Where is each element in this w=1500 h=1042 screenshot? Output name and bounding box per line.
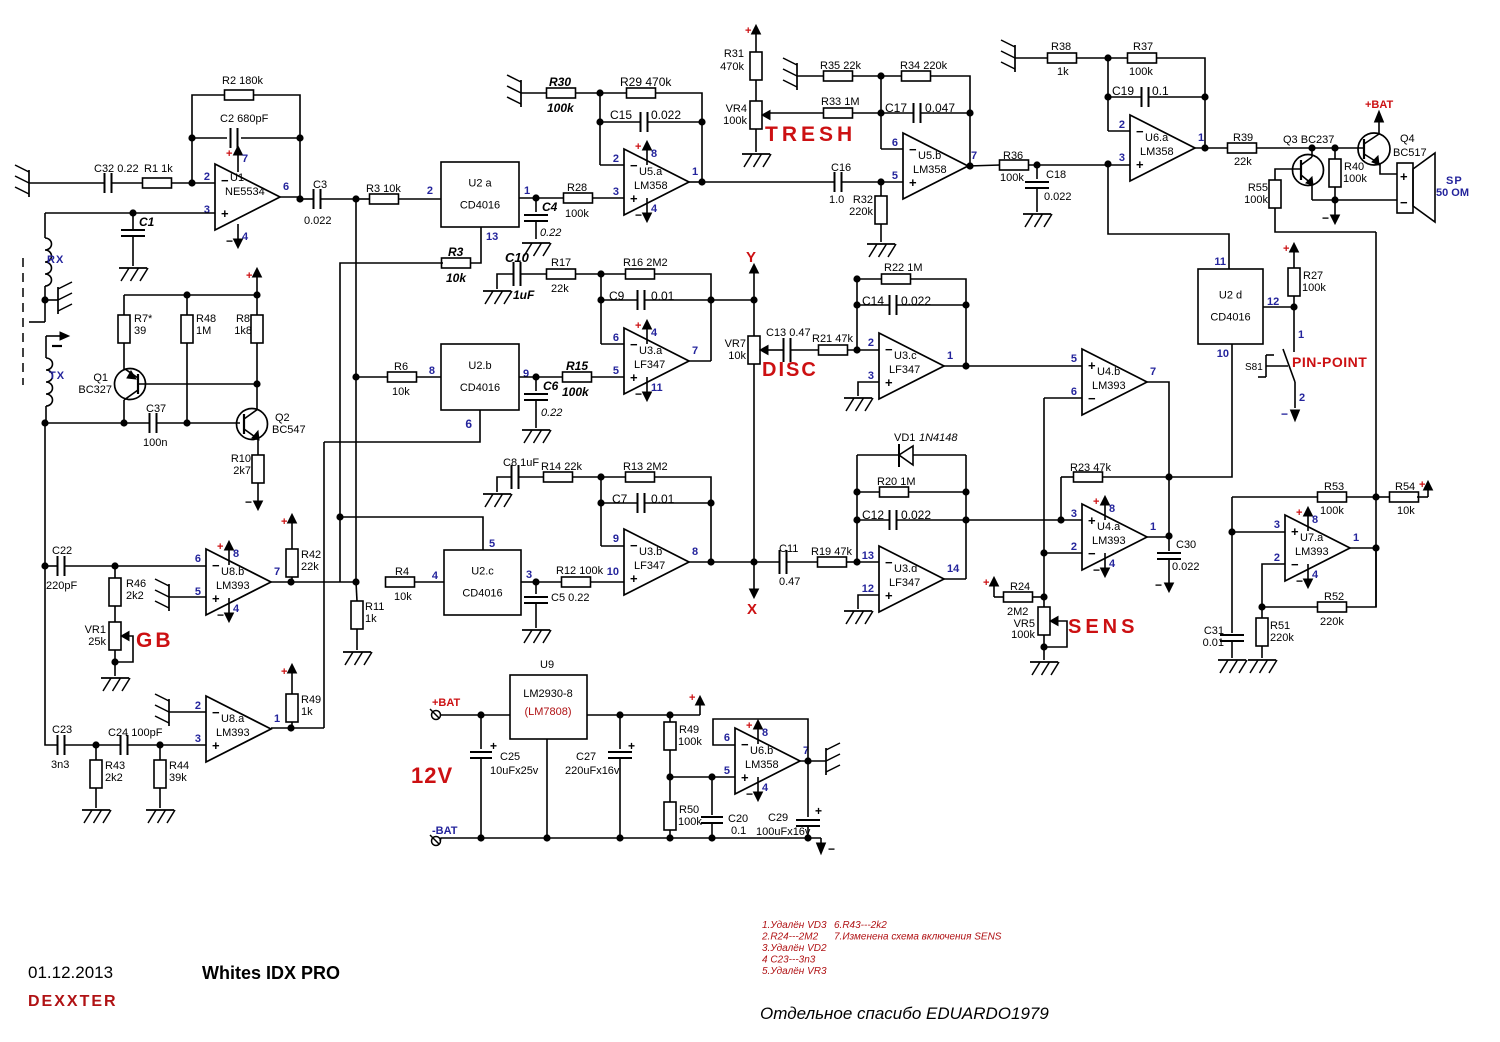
junction R20 left: [853, 488, 860, 495]
node U5.b output: [966, 162, 973, 169]
wire right main vertical: [1375, 232, 1377, 607]
svg-text:−: −: [1088, 546, 1096, 561]
svg-text:R39: R39: [1233, 132, 1253, 144]
svg-text:2k7: 2k7: [233, 465, 251, 477]
wire R50 bottom: [669, 830, 671, 838]
svg-text:LM2930-8: LM2930-8: [523, 688, 573, 700]
IC U2.a CD4016: [441, 162, 519, 227]
svg-text:+: +: [212, 738, 220, 753]
svg-text:6.R43---2k2: 6.R43---2k2: [834, 920, 887, 931]
svg-text:−: −: [630, 337, 638, 352]
capacitor C15: [640, 112, 642, 132]
junction R24: [1040, 593, 1047, 600]
junction C7 left: [597, 499, 604, 506]
junction pin13: [853, 558, 860, 565]
wire U6.a pin2: [1108, 130, 1130, 132]
svg-text:Q2: Q2: [275, 412, 290, 424]
wire U8.b output row: [271, 581, 356, 583]
wire C3 to node: [321, 198, 356, 200]
svg-text:+: +: [281, 516, 287, 528]
wire C7 left: [601, 502, 637, 504]
svg-text:R6: R6: [394, 361, 408, 373]
wire RX to U1 pin3: [45, 212, 215, 214]
svg-text:R3 10k: R3 10k: [366, 183, 401, 195]
transistor Q3 BC237: [1293, 155, 1324, 186]
svg-text:2: 2: [1299, 392, 1305, 404]
wire R32 bottom: [880, 224, 882, 242]
svg-text:+: +: [1136, 157, 1144, 172]
svg-text:Whites IDX PRO: Whites IDX PRO: [202, 963, 340, 983]
ground (U3.d pin12): [844, 610, 872, 612]
svg-text:6: 6: [195, 553, 201, 565]
svg-text:0.01: 0.01: [651, 289, 675, 303]
svg-text:R24: R24: [1010, 581, 1030, 593]
C30 plates: [1157, 552, 1181, 554]
svg-text:5: 5: [1071, 353, 1077, 365]
svg-text:12V: 12V: [411, 763, 453, 788]
resistor R39: [1228, 143, 1257, 153]
node C9/Y: [707, 296, 714, 303]
wire Q3 emitter to speaker minus: [1312, 199, 1397, 201]
wire Q4 emitter to speaker plus: [1380, 164, 1397, 174]
wire R44 top: [159, 745, 161, 760]
svg-text:2: 2: [204, 171, 210, 183]
C20 plates: [701, 816, 723, 818]
wire U5.b fb left vertical: [880, 76, 882, 149]
svg-text:LM393: LM393: [216, 727, 250, 739]
op-amp U3.a: [624, 328, 689, 394]
svg-text:−: −: [885, 342, 893, 357]
wire R46 to VR1: [114, 606, 116, 622]
svg-text:U4.a: U4.a: [1097, 521, 1121, 533]
op-amp U4.b: [1082, 349, 1147, 415]
svg-text:TRESH: TRESH: [765, 123, 856, 146]
wire U3.d feedback right vertical: [965, 455, 967, 579]
resistor R14: [544, 472, 573, 482]
wire to Y line: [711, 299, 754, 301]
junction R44 top: [156, 741, 163, 748]
svg-text:+: +: [630, 571, 638, 586]
svg-text:C23: C23: [52, 724, 72, 736]
power arrow -V rail: [817, 843, 826, 854]
Q3 collector: [1301, 157, 1312, 165]
junction C19 left: [1104, 93, 1111, 100]
wire VD1 left: [857, 454, 898, 456]
ground (R44): [146, 809, 174, 811]
svg-text:39k: 39k: [169, 772, 187, 784]
svg-text:R28: R28: [567, 182, 587, 194]
svg-text:C3: C3: [313, 179, 327, 191]
junction C15 right: [698, 118, 705, 125]
resistor R48: [181, 315, 193, 343]
capacitor C27: [619, 715, 621, 749]
node U5.a output: [698, 178, 705, 185]
ground (VR4): [742, 153, 770, 155]
junction output feedback: [962, 362, 969, 369]
wire C24 to U8.a pin3: [128, 744, 206, 746]
svg-text:LM358: LM358: [913, 164, 947, 176]
svg-text:LF347: LF347: [634, 359, 665, 371]
wire U7.a pin2: [1262, 564, 1285, 607]
op-amp U6.a: [1130, 115, 1195, 181]
svg-text:U4.b: U4.b: [1097, 366, 1120, 378]
svg-text:−: −: [828, 842, 835, 856]
svg-text:BC547: BC547: [272, 424, 306, 436]
svg-text:C11: C11: [779, 543, 798, 555]
resistor R24: [1004, 592, 1033, 602]
X axis arrow: [753, 562, 755, 592]
junction R43 top: [92, 741, 99, 748]
svg-text:100k: 100k: [678, 816, 702, 828]
svg-text:1k: 1k: [1057, 66, 1069, 78]
svg-text:+: +: [909, 175, 917, 190]
wire R42 bottom stub: [291, 577, 293, 582]
svg-text:+: +: [745, 25, 751, 37]
resistor R40: [1329, 159, 1341, 187]
ground (R32): [867, 243, 895, 245]
svg-text:C22: C22: [52, 545, 72, 557]
capacitor C5: [535, 582, 537, 594]
wire U2.d pin10 down: [1169, 344, 1232, 477]
capacitor C20: [711, 777, 713, 815]
wire +BAT to U9: [440, 714, 510, 716]
svg-text:−: −: [741, 737, 749, 752]
coil RX: [44, 213, 46, 238]
svg-text:2.R24---2M2: 2.R24---2M2: [761, 932, 819, 943]
svg-text:LM358: LM358: [634, 180, 668, 192]
resistor R46: [109, 578, 121, 606]
svg-text:R22 1M: R22 1M: [884, 262, 923, 274]
wire R28 to U5.a pin3: [592, 197, 624, 199]
wire R8 top: [256, 295, 258, 315]
wire R17 to R16: [576, 273, 626, 275]
node U6.b output: [804, 757, 811, 764]
junction C27 bottom: [616, 834, 623, 841]
wire left vertical to C23: [45, 566, 57, 745]
capacitor C22: [57, 556, 59, 576]
svg-text:Q4: Q4: [1400, 133, 1415, 145]
resistor R49 (100k): [664, 722, 676, 750]
svg-text:U9: U9: [540, 659, 554, 671]
svg-text:2: 2: [1274, 552, 1280, 564]
capacitor C17: [913, 103, 915, 123]
wire U7.a pin3: [1232, 531, 1285, 533]
svg-text:1N4148: 1N4148: [919, 432, 958, 444]
wire U3.c pin3 to ground: [858, 382, 879, 396]
wire to R29: [600, 92, 627, 94]
wire U4.a output: [1147, 536, 1169, 538]
junction C18: [1033, 161, 1040, 168]
ground (C5): [522, 629, 550, 631]
wire R30 to node: [576, 92, 600, 94]
wire C9 left: [601, 299, 637, 301]
svg-text:0.01: 0.01: [1203, 637, 1224, 649]
svg-text:22k: 22k: [1234, 156, 1252, 168]
svg-text:−: −: [1291, 557, 1299, 572]
power arrow +BAT: [1375, 111, 1384, 122]
svg-text:8: 8: [762, 727, 768, 739]
junction R8 top: [253, 291, 260, 298]
svg-text:−: −: [217, 608, 224, 622]
wire switch pin1: [1293, 307, 1295, 352]
junction R42 bottom: [287, 578, 294, 585]
wire VR1 to ground: [114, 650, 116, 676]
junction C12 right: [962, 516, 969, 523]
svg-text:1k: 1k: [365, 613, 377, 625]
svg-text:8: 8: [1312, 514, 1318, 526]
junction C12 left: [853, 516, 860, 523]
svg-text:3: 3: [195, 733, 201, 745]
wire R24 to node: [1033, 596, 1044, 598]
wire U3.b fb left vertical: [600, 477, 602, 546]
wire R13 right vertical: [654, 477, 711, 562]
svg-text:R35 22k: R35 22k: [820, 60, 861, 72]
svg-text:6: 6: [724, 732, 730, 744]
wire VD1 right: [913, 454, 966, 456]
svg-text:R10: R10: [231, 453, 251, 465]
node U6.a output: [1201, 144, 1208, 151]
svg-text:13: 13: [862, 550, 874, 562]
wire R48 bottom: [186, 343, 188, 423]
junction C20 top: [708, 773, 715, 780]
ground (C32 input): [28, 170, 30, 197]
svg-text:1uF: 1uF: [513, 288, 535, 302]
junction feedback left C2: [188, 134, 195, 141]
capacitor C13: [783, 338, 785, 362]
transistor Q1 BC327: [115, 369, 146, 400]
wire U6.b output: [800, 760, 826, 762]
wire U5.a tip: [689, 181, 702, 183]
svg-text:SENS: SENS: [1068, 616, 1138, 638]
svg-text:2: 2: [1119, 119, 1125, 131]
wire VR7 wiper to C13: [768, 349, 783, 351]
op-amp U4.a: [1082, 504, 1147, 570]
C27 plates: [608, 751, 632, 753]
svg-text:+: +: [983, 577, 989, 589]
svg-text:3: 3: [868, 370, 874, 382]
svg-text:0.1: 0.1: [1152, 84, 1169, 98]
capacitor C12: [889, 510, 891, 530]
svg-text:0.1: 0.1: [731, 825, 746, 837]
svg-text:U1: U1: [230, 172, 244, 184]
ground (C1): [119, 267, 147, 269]
svg-text:U8.b: U8.b: [221, 566, 244, 578]
resistor R7*: [118, 315, 130, 343]
op-amp U6.b: [735, 728, 800, 794]
svg-text:Q1: Q1: [93, 372, 108, 384]
svg-text:0.47: 0.47: [779, 576, 800, 588]
junction output/feedback: [707, 558, 714, 565]
wire U6.a out to R39: [1195, 147, 1228, 149]
svg-text:C37: C37: [146, 403, 166, 415]
wire C13 to R21: [791, 349, 820, 351]
svg-text:+: +: [815, 804, 822, 818]
resistor R17: [547, 269, 576, 279]
svg-text:0.22: 0.22: [540, 227, 561, 239]
junction R30/R29: [596, 89, 603, 96]
resistor R33: [824, 108, 853, 118]
svg-text:-BAT: -BAT: [432, 825, 458, 837]
wire U2.b pin6 down-left: [324, 410, 480, 442]
ground (VR1): [101, 677, 129, 679]
resistor R21: [819, 345, 848, 355]
junction C9 left: [597, 296, 604, 303]
svg-text:Y: Y: [746, 249, 756, 266]
ground (C10): [483, 290, 511, 292]
svg-text:8: 8: [233, 548, 239, 560]
svg-text:S81: S81: [1245, 362, 1263, 373]
svg-text:C2 680pF: C2 680pF: [220, 113, 269, 125]
svg-text:CD4016: CD4016: [1210, 312, 1250, 324]
svg-text:R31: R31: [724, 48, 744, 60]
svg-text:R16 2M2: R16 2M2: [623, 257, 668, 269]
svg-text:5: 5: [892, 170, 898, 182]
wire ground to R35: [797, 75, 824, 77]
svg-text:100k: 100k: [678, 736, 702, 748]
wire R36 to U6.a pin3: [1028, 164, 1130, 166]
svg-text:5: 5: [489, 538, 495, 550]
junction Q1 collector: [120, 419, 127, 426]
svg-text:4: 4: [1109, 558, 1116, 570]
svg-text:100k: 100k: [1343, 173, 1367, 185]
svg-text:U2 a: U2 a: [468, 178, 492, 190]
resistor R22: [882, 274, 911, 284]
svg-text:C25: C25: [500, 751, 520, 763]
wire R34 right vertical: [931, 76, 970, 166]
capacitor C37: [149, 413, 151, 433]
svg-text:R20 1M: R20 1M: [877, 476, 916, 488]
junction R49 top: [666, 711, 673, 718]
svg-text:25k: 25k: [88, 636, 106, 648]
svg-text:RX: RX: [47, 254, 64, 266]
wire U3.a output: [689, 360, 711, 362]
svg-text:LM358: LM358: [1140, 146, 1174, 158]
wire U2.c pin3: [521, 581, 536, 583]
node TX bottom: [41, 419, 48, 426]
svg-text:C15: C15: [610, 108, 632, 122]
svg-text:11: 11: [651, 382, 663, 394]
junction R46 top: [111, 562, 118, 569]
svg-text:−: −: [630, 538, 638, 553]
wire vertical node R3/R6/R4: [355, 199, 357, 582]
junction R20 right: [962, 488, 969, 495]
wire U3.d pin12 to ground: [858, 595, 879, 609]
svg-text:+: +: [628, 739, 635, 753]
wire R23 left: [1061, 476, 1074, 478]
wire ground to U8.b pin5: [169, 596, 206, 598]
svg-text:LM393: LM393: [1295, 546, 1329, 558]
svg-text:+: +: [741, 770, 749, 785]
svg-text:C6: C6: [543, 379, 559, 393]
resistor R42: [286, 549, 298, 577]
svg-text:22k: 22k: [551, 283, 569, 295]
ground (RX): [57, 287, 59, 314]
wire R3 left vertical: [340, 263, 443, 582]
svg-text:3: 3: [1119, 152, 1125, 164]
op-amp U1: [215, 164, 280, 230]
svg-text:−: −: [1088, 391, 1096, 406]
wire VR4 to ground: [755, 129, 757, 152]
resistor R15: [563, 372, 592, 382]
svg-text:1: 1: [1150, 521, 1156, 533]
wire ground to C10: [497, 274, 513, 289]
wire R11 top: [356, 582, 357, 601]
svg-text:BC517: BC517: [1393, 147, 1427, 159]
wire U4.b pin6: [1044, 397, 1082, 399]
svg-text:1: 1: [947, 350, 953, 362]
svg-text:2: 2: [868, 337, 874, 349]
op-amp U8.b: [206, 549, 271, 615]
svg-text:470k: 470k: [720, 61, 744, 73]
svg-text:DEXXTER: DEXXTER: [28, 993, 118, 1010]
wire R14 to R13: [573, 476, 626, 478]
svg-text:10k: 10k: [446, 271, 467, 285]
svg-text:4: 4: [651, 327, 658, 339]
wire R35 to R34: [853, 75, 902, 77]
svg-text:100k: 100k: [723, 115, 747, 127]
svg-text:1: 1: [692, 166, 698, 178]
wire R48 top: [186, 295, 188, 315]
wire R40 bottom: [1334, 187, 1336, 200]
wire U5.a out to C16: [702, 181, 834, 183]
wire to C3: [300, 198, 313, 200]
junction C14 right: [962, 301, 969, 308]
svg-text:1M: 1M: [196, 325, 211, 337]
svg-text:PIN-POINT: PIN-POINT: [1292, 354, 1367, 370]
svg-text:−: −: [1296, 574, 1303, 588]
resistor R27: [1288, 268, 1300, 296]
wire R7 top: [123, 295, 125, 315]
Q4 collector: [1364, 134, 1379, 144]
op-amp U3.d: [879, 546, 944, 612]
wire U3.d fb left vertical: [856, 455, 858, 562]
junction C20 bottom: [708, 834, 715, 841]
capacitor C16: [834, 172, 836, 192]
ground (R30): [520, 80, 522, 107]
svg-text:VD1: VD1: [894, 432, 915, 444]
resistor R32: [875, 196, 887, 224]
ground (U6.b out): [825, 748, 827, 775]
svg-text:R12 100k: R12 100k: [556, 565, 604, 577]
resistor R28: [564, 193, 593, 203]
svg-text:+: +: [1291, 524, 1299, 539]
wire U4.b output vertical: [1147, 382, 1169, 536]
resistor R54: [1390, 492, 1419, 502]
wire R23 to pin3: [1060, 477, 1062, 520]
svg-text:U3.a: U3.a: [639, 345, 663, 357]
svg-text:C10: C10: [505, 250, 530, 265]
wire to R22: [857, 278, 882, 280]
wire U8.a output: [271, 727, 324, 729]
svg-text:2: 2: [1071, 541, 1077, 553]
svg-text:+: +: [490, 739, 497, 753]
op-amp U5.b: [903, 133, 968, 199]
svg-text:1k8: 1k8: [234, 325, 252, 337]
wire C23 to C24: [65, 744, 120, 746]
svg-text:2: 2: [613, 153, 619, 165]
svg-text:C31: C31: [1204, 625, 1224, 637]
wire U5.b output: [968, 165, 1000, 166]
junction U6.b pin5: [666, 773, 673, 780]
svg-text:10: 10: [1217, 348, 1229, 360]
svg-text:Q3 BC237: Q3 BC237: [1283, 134, 1334, 146]
wire R2 to U1 output: [253, 95, 300, 199]
svg-text:14: 14: [947, 563, 960, 575]
resistor R3 10k: [370, 194, 399, 204]
svg-text:6: 6: [465, 417, 472, 431]
Q2 emitter: [244, 429, 258, 439]
svg-text:+: +: [630, 370, 638, 385]
